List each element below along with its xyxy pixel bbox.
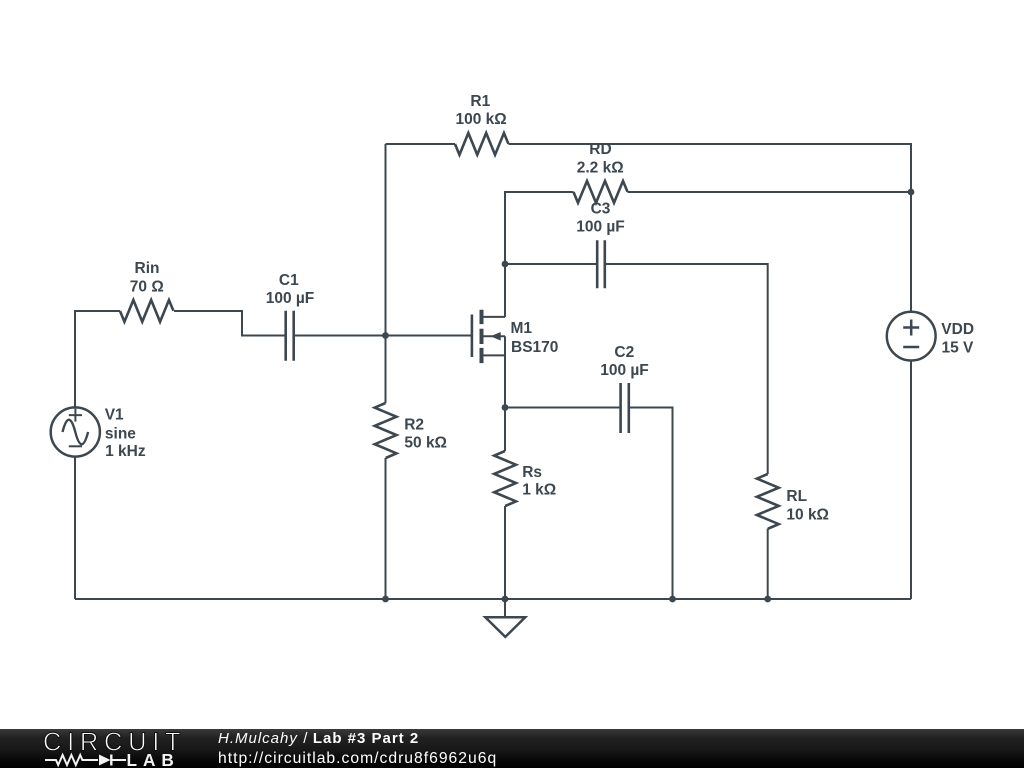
junction: RL at bottom rail <box>764 596 771 603</box>
resistor RL 10k (vertical) <box>757 474 779 529</box>
footer title line <box>218 730 419 747</box>
svg-text:100 µF: 100 µF <box>600 362 649 379</box>
wire: gate node up to R1 row <box>385 144 387 336</box>
wire: R1 row left segment <box>386 143 456 145</box>
wire: C1 right plate to MOSFET gate (through gate node) <box>295 335 472 337</box>
capacitor C1 100uF plates <box>286 311 294 361</box>
transistor M1 BS170 (NMOS) <box>472 310 505 363</box>
resistor Rin 70 ohm <box>120 300 173 322</box>
svg-text:V1: V1 <box>105 407 124 424</box>
svg-text:C3: C3 <box>591 201 611 218</box>
svg-text:LAB: LAB <box>127 750 180 768</box>
wire: R2 bottom to bottom rail <box>385 458 387 599</box>
V1 sine squiggle <box>63 420 89 445</box>
junction: C2 at bottom rail <box>669 596 676 603</box>
M1 body arrow <box>491 332 501 341</box>
VDD minus sign <box>903 346 919 349</box>
junction: ground at bottom rail <box>502 596 509 603</box>
svg-text:10 kΩ: 10 kΩ <box>786 507 829 524</box>
svg-text:C1: C1 <box>279 272 299 289</box>
svg-text:R1: R1 <box>470 93 490 110</box>
wire: RD row right segment to right rail <box>628 191 912 193</box>
logo diode <box>99 755 111 766</box>
wire: gate node down to R2 top <box>385 336 387 404</box>
svg-text:100 kΩ: 100 kΩ <box>455 111 506 128</box>
wire: Rin right to C1 left plate (with step down) <box>174 311 285 336</box>
CircuitLab logo <box>0 729 200 768</box>
resistor RD 2.2k <box>574 181 628 203</box>
svg-text:BS170: BS170 <box>511 339 558 356</box>
svg-text:M1: M1 <box>511 320 533 337</box>
V1 minus sign <box>69 445 82 447</box>
capacitor C2 100uF plates <box>621 383 629 433</box>
svg-text:VDD: VDD <box>941 321 974 338</box>
capacitor C3 100uF plates <box>597 240 605 288</box>
M1 body stub with arrow <box>484 335 506 337</box>
wire: C2 row left segment from source node <box>505 407 620 409</box>
svg-text:RD: RD <box>589 141 611 158</box>
resistor Rs 1k (vertical) <box>494 451 516 506</box>
M1 channel bars <box>480 310 484 363</box>
junction: source node / C2 branch <box>502 404 509 411</box>
svg-text:RL: RL <box>786 488 807 505</box>
svg-text:50 kΩ: 50 kΩ <box>404 434 447 451</box>
wire: bottom rail (ground net) <box>75 598 911 600</box>
wire: RD row left corner down drain vertical <box>505 192 574 317</box>
M1 drain stub <box>484 316 506 318</box>
resistor R1 100k <box>455 133 508 155</box>
svg-text:70 Ω: 70 Ω <box>130 278 164 295</box>
ground symbol <box>485 599 525 637</box>
svg-text:R2: R2 <box>404 417 424 434</box>
resistor R2 50k (vertical) <box>375 403 397 458</box>
junction: R2 at bottom rail <box>382 596 389 603</box>
wire: V1 bottom lead <box>74 457 76 599</box>
V1 plus sign <box>69 409 82 422</box>
junction: gate node <box>382 332 389 339</box>
wire: V1 top lead up and right to Rin <box>75 311 120 407</box>
svg-text:15 V: 15 V <box>942 339 975 356</box>
wire: R1 to top-right corner and down right rail <box>509 144 912 312</box>
wire: MOSFET source vertical down to source node <box>504 336 506 407</box>
wire: RL bottom to bottom rail <box>767 529 769 600</box>
svg-text:1 kHz: 1 kHz <box>105 443 146 460</box>
source VDD 15V <box>887 312 936 361</box>
wire: C3 row left segment from drain node <box>505 263 597 265</box>
svg-text:C2: C2 <box>614 344 634 361</box>
source V1 sine 1kHz <box>51 407 100 456</box>
svg-text:sine: sine <box>105 425 136 442</box>
svg-text:100 µF: 100 µF <box>266 290 315 307</box>
svg-text:Rs: Rs <box>522 464 542 481</box>
M1 gate bar <box>471 315 474 358</box>
footer url line <box>218 750 497 768</box>
svg-text:2.2 kΩ: 2.2 kΩ <box>577 159 624 176</box>
footer bar <box>0 729 1024 768</box>
wire: Rs bottom to bottom rail <box>504 506 506 599</box>
M1 source stub <box>484 354 506 356</box>
svg-text:Rin: Rin <box>135 260 160 277</box>
svg-text:100 µF: 100 µF <box>576 218 625 235</box>
wire: C2 right plate right and down to bottom rail <box>630 408 673 600</box>
VDD plus sign <box>903 320 919 336</box>
svg-text:1 kΩ: 1 kΩ <box>522 482 556 499</box>
junction: drain node / RD right rail <box>908 189 915 196</box>
junction: drain / C3 branch <box>502 261 509 268</box>
wire: source node down to Rs top <box>504 408 506 452</box>
logo resistor squiggle <box>45 755 98 765</box>
wire: VDD bottom lead down right rail <box>910 361 912 600</box>
wire: C3 right plate to RL top <box>605 264 768 474</box>
